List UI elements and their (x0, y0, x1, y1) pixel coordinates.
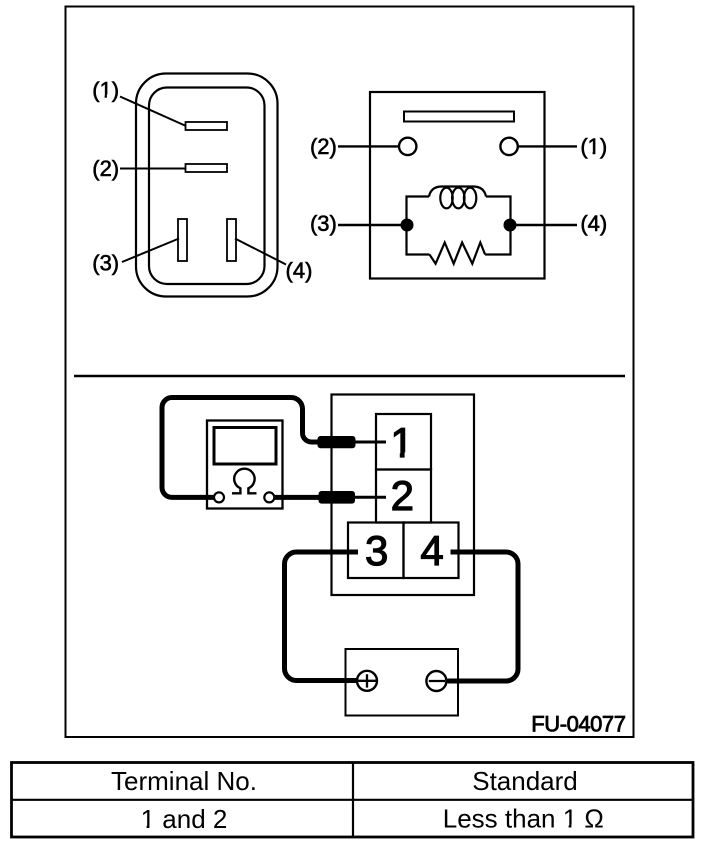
svg-text:4: 4 (420, 527, 443, 574)
svg-text:(1): (1) (580, 134, 607, 159)
battery plus terminal (357, 671, 377, 691)
lead line to node (4) (516, 224, 577, 226)
svg-text:(2): (2) (92, 156, 119, 181)
svg-text:1: 1 (390, 419, 413, 466)
svg-text:FU-04077: FU-04077 (531, 712, 625, 737)
svg-text:(1): (1) (92, 77, 119, 102)
svg-text:2: 2 (391, 472, 414, 519)
coil-resistor loop right side (485, 197, 510, 255)
probe tip at terminal 2 (319, 491, 356, 504)
outer figure frame (66, 7, 634, 738)
wire terminal 4 to battery minus (448, 552, 519, 681)
svg-text:(3): (3) (92, 250, 119, 275)
probe tip at terminal 1 (318, 436, 356, 448)
divider line between upper and lower halves (74, 375, 625, 378)
results table outer border (12, 763, 694, 838)
terminal box 3 (348, 523, 404, 579)
leader line label (3) left (122, 239, 179, 263)
plus sign (358, 674, 376, 687)
probe wire into terminal 2 (352, 496, 386, 499)
test lead wire from meter right jack to probe 2 (272, 495, 322, 500)
terminal slot 1 (186, 122, 228, 130)
coil-resistor loop left side (407, 197, 430, 255)
coil petal 2 (452, 188, 464, 209)
relay contact bar (404, 112, 514, 122)
terminal box 2 (376, 470, 431, 523)
leader line label (4) left (235, 239, 286, 265)
svg-text:3: 3 (365, 527, 388, 574)
battery box (346, 649, 459, 716)
terminal box 4 (404, 523, 459, 579)
leader line label (1) left (120, 97, 186, 127)
probe wire into terminal 1 (352, 441, 386, 444)
ohmmeter display (214, 428, 276, 465)
lead line to circle (1) (518, 145, 577, 147)
svg-text:(2): (2) (310, 134, 337, 159)
coil petal 1 (440, 188, 452, 209)
white masks removing serif feet from "1" glyphs (99, 94, 600, 830)
wire terminal 3 to battery plus (285, 552, 359, 681)
lead line to circle (2) (338, 145, 400, 147)
minus sign (429, 680, 445, 682)
connector housing outer outline (136, 74, 278, 297)
terminal box 1 (376, 414, 431, 470)
coil hump (429, 187, 486, 197)
ohmmeter body (207, 421, 283, 509)
terminal slot 2 (186, 164, 228, 172)
resistor zigzag (430, 243, 486, 264)
svg-text:(4): (4) (580, 211, 607, 236)
svg-text:Terminal No.: Terminal No. (111, 766, 257, 796)
svg-text:Less than 1 Ω: Less than 1 Ω (443, 803, 604, 833)
terminal slot 4 (227, 219, 236, 261)
coil petal 3 (464, 188, 476, 209)
terminal slot 3 (178, 219, 187, 261)
relay internal circuit box (370, 92, 545, 279)
test lead wire from meter left jack to probe 1 (162, 398, 319, 498)
ohmmeter omega symbol (232, 469, 257, 494)
battery minus terminal (426, 671, 446, 691)
svg-text:(3): (3) (310, 211, 337, 236)
lead line to node (3) (338, 224, 401, 226)
leader line label (2) left (120, 168, 186, 170)
connector housing inner outline (149, 88, 265, 285)
relay pin circle (2) (399, 138, 416, 155)
table vertical divider (352, 763, 354, 838)
meter jack circle left (214, 492, 224, 502)
table middle horizontal line (12, 799, 694, 801)
test connector outer box (332, 395, 475, 596)
svg-text:(4): (4) (286, 258, 313, 283)
meter jack circle right (264, 492, 274, 502)
relay pin circle (1) (500, 138, 517, 155)
svg-text:Standard: Standard (472, 766, 578, 796)
node dot (3) (401, 219, 414, 232)
node dot (4) (504, 219, 517, 232)
